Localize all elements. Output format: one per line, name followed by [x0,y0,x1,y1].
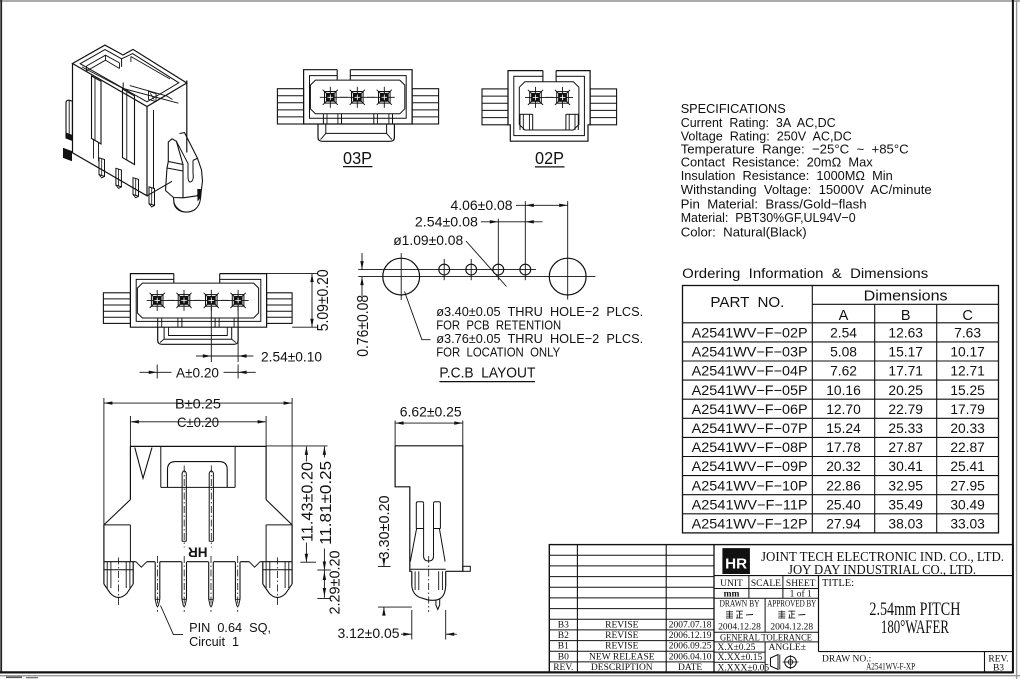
svg-text:2007.07.18: 2007.07.18 [669,620,712,630]
svg-text:A±0.20: A±0.20 [176,364,219,380]
svg-text:B: B [901,308,911,324]
svg-text:A2541WV−F−06P: A2541WV−F−06P [692,402,808,417]
svg-text:PART NO.: PART NO. [710,294,784,311]
svg-text:REVISE: REVISE [605,642,638,652]
svg-text:SPECIFICATIONS: SPECIFICATIONS [681,101,786,116]
svg-text:5.08: 5.08 [830,345,857,360]
svg-text:DRAW NO.:: DRAW NO.: [822,655,871,665]
svg-text:20.33: 20.33 [950,421,985,436]
svg-text:A2541WV−F−07P: A2541WV−F−07P [692,421,808,436]
svg-text:A2541WV-F-XP: A2541WV-F-XP [866,663,915,673]
svg-text:35.49: 35.49 [888,497,923,512]
svg-text:22.79: 22.79 [888,402,923,417]
svg-text:2.29±0.20: 2.29±0.20 [327,551,344,615]
svg-text:Insulation Resistance: 1000M: Insulation Resistance: 1000MΩ Min [681,168,893,183]
svg-text:27.87: 27.87 [888,440,923,455]
svg-text:A2541WV−F−02P: A2541WV−F−02P [692,326,808,341]
svg-text:22.87: 22.87 [950,440,985,455]
svg-text:NEW RELEASE: NEW RELEASE [589,652,655,662]
svg-text:B3: B3 [993,664,1004,674]
svg-text:27.95: 27.95 [950,478,985,493]
svg-text:27.94: 27.94 [826,517,861,532]
svg-text:7.63: 7.63 [954,326,981,341]
svg-text:3.30±0.20: 3.30±0.20 [376,496,393,560]
svg-text:Ordering Information & Dime: Ordering Information & Dimensions [682,266,928,281]
svg-text:A2541WV−F−05P: A2541WV−F−05P [692,383,808,398]
svg-text:15.17: 15.17 [888,345,923,360]
svg-text:02P: 02P [535,148,564,168]
svg-text:A2541WV−F−08P: A2541WV−F−08P [692,440,808,455]
svg-text:12.71: 12.71 [950,364,985,379]
svg-text:15.25: 15.25 [950,383,985,398]
svg-text:PIN 0.64 SQ,: PIN 0.64 SQ, [189,620,271,635]
svg-text:25.40: 25.40 [826,497,861,512]
svg-text:25.33: 25.33 [888,421,923,436]
svg-text:12.63: 12.63 [888,326,923,341]
svg-text:25.41: 25.41 [950,459,985,474]
svg-text:Pin Material: Brass/Gold−fla: Pin Material: Brass/Gold−flash [681,196,867,211]
svg-text:30.41: 30.41 [888,459,923,474]
svg-text:20.32: 20.32 [826,459,861,474]
svg-text:B0: B0 [558,652,569,662]
svg-text:A2541WV−F−11P: A2541WV−F−11P [692,497,808,512]
svg-text:2.54±0.08: 2.54±0.08 [415,214,478,230]
svg-text:2006.12.19: 2006.12.19 [669,631,712,641]
svg-text:Material: PBT30%GF,UL94V−0: Material: PBT30%GF,UL94V−0 [681,210,856,225]
svg-text:2004.12.28: 2004.12.28 [770,623,813,633]
svg-text:B2: B2 [558,631,569,641]
svg-text:SHEET: SHEET [786,579,816,589]
svg-text:17.78: 17.78 [826,440,861,455]
svg-text:5.09±0.20: 5.09±0.20 [315,269,332,331]
svg-text:DRAWN BY: DRAWN BY [720,599,760,609]
svg-text:17.79: 17.79 [950,402,985,417]
svg-text:11.43±0.20: 11.43±0.20 [300,462,317,542]
svg-text:HR: HR [188,544,208,559]
svg-text:TITLE:: TITLE: [822,578,854,589]
svg-text:X.XXX±0.05: X.XXX±0.05 [718,663,770,673]
svg-text:12.70: 12.70 [826,402,861,417]
svg-text:03P: 03P [343,148,372,168]
svg-text:DATE: DATE [678,663,702,673]
svg-text:ANGLE±: ANGLE± [769,643,806,653]
svg-text:0.76±0.08: 0.76±0.08 [355,295,372,357]
svg-text:A2541WV−F−09P: A2541WV−F−09P [692,459,808,474]
svg-text:2.54±0.10: 2.54±0.10 [261,348,322,364]
svg-text:REV.: REV. [553,663,573,673]
svg-text:B±0.25: B±0.25 [175,395,221,411]
svg-text:UNIT: UNIT [720,579,743,589]
svg-text:HR: HR [725,556,747,573]
svg-text:10.16: 10.16 [826,383,861,398]
svg-text:Dimensions: Dimensions [864,287,948,304]
svg-text:33.03: 33.03 [950,517,985,532]
svg-text:20.25: 20.25 [888,383,923,398]
svg-text:15.24: 15.24 [826,421,861,436]
svg-text:APPROVED BY: APPROVED BY [767,598,816,608]
svg-text:4.06±0.08: 4.06±0.08 [451,197,513,213]
svg-text:38.03: 38.03 [888,517,923,532]
svg-text:A2541WV−F−12P: A2541WV−F−12P [692,517,808,532]
svg-text:C: C [962,308,972,324]
svg-text:A2541WV−F−04P: A2541WV−F−04P [692,364,808,379]
svg-text:X.X±0.25: X.X±0.25 [718,643,756,653]
svg-text:7.62: 7.62 [830,364,857,379]
svg-text:B3: B3 [558,620,569,630]
svg-text:A2541WV−F−03P: A2541WV−F−03P [692,345,808,360]
svg-text:6.62±0.25: 6.62±0.25 [400,404,462,420]
svg-text:REVISE: REVISE [605,631,638,641]
svg-text:SCALE: SCALE [751,579,781,589]
svg-text:2006.09.25: 2006.09.25 [669,642,712,652]
svg-text:Color: Natural(Black): Color: Natural(Black) [681,224,807,239]
svg-text:2006.04.10: 2006.04.10 [669,652,712,662]
svg-text:3.12±0.05: 3.12±0.05 [338,625,400,641]
svg-text:B1: B1 [558,642,569,652]
svg-text:X.XX±0.15: X.XX±0.15 [718,653,763,663]
svg-text:Circuit 1: Circuit 1 [189,634,239,649]
svg-text:2004.12.28: 2004.12.28 [718,623,761,633]
svg-text:A2541WV−F−10P: A2541WV−F−10P [692,478,808,493]
svg-text:10.17: 10.17 [950,345,985,360]
svg-text:A: A [839,308,849,324]
svg-text:REVISE: REVISE [605,620,638,630]
svg-text:17.71: 17.71 [888,364,923,379]
svg-text:30.49: 30.49 [950,497,985,512]
svg-text:2.54: 2.54 [830,326,857,341]
svg-text:FOR LOCATION ONLY: FOR LOCATION ONLY [436,345,560,360]
svg-text:Withstanding Voltage: 15000V: Withstanding Voltage: 15000V AC/minute [681,182,932,197]
svg-text:11.81±0.25: 11.81±0.25 [318,461,335,545]
svg-text:JOY DAY INDUSTRIAL CO., LTD.: JOY DAY INDUSTRIAL CO., LTD. [788,562,976,577]
svg-text:ø1.09±0.08: ø1.09±0.08 [393,232,463,248]
svg-text:32.95: 32.95 [888,478,923,493]
svg-text:180°WAFER: 180°WAFER [881,617,949,638]
svg-text:C±0.20: C±0.20 [177,414,219,430]
svg-text:P.C.B LAYOUT: P.C.B LAYOUT [439,365,535,381]
svg-text:22.86: 22.86 [826,478,861,493]
svg-text:DESCRIPTION: DESCRIPTION [591,663,653,673]
